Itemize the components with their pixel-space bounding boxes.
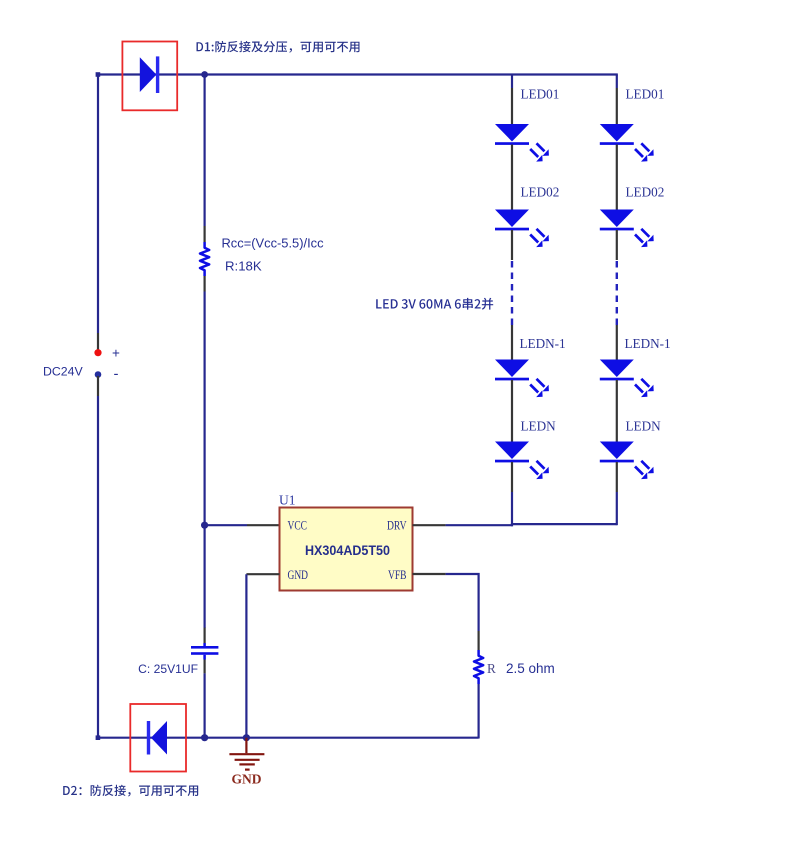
LED LEDN col2 xyxy=(600,442,654,480)
lead: gray above R xyxy=(478,631,480,650)
lead: col1 into LED01 xyxy=(511,88,513,125)
lead: col1 into LEDN-1 xyxy=(511,325,513,360)
lead: col2 below LED02 xyxy=(616,230,618,260)
lead: VFB pin stub xyxy=(413,573,446,575)
wire: LED bottom rail col1 to col2 xyxy=(511,523,617,525)
lead: gray below Rcc xyxy=(204,276,206,292)
svg-text:LEDN-1: LEDN-1 xyxy=(625,336,671,351)
svg-text:HX304AD5T50: HX304AD5T50 xyxy=(305,543,390,558)
wire: R to bottom rail xyxy=(478,684,480,739)
svg-text:LEDN: LEDN xyxy=(521,419,557,434)
LED LEDN-1 col1 xyxy=(495,360,549,398)
lead: gray above + terminal xyxy=(97,333,99,350)
wire: col2 dashed continuation xyxy=(616,261,618,325)
svg-text:VFB: VFB xyxy=(388,568,407,582)
lead: gray above capacitor xyxy=(204,628,206,643)
label: D1 annotation xyxy=(197,41,360,53)
lead: gray below capacitor xyxy=(204,660,206,674)
wire: GND pin down to bottom rail xyxy=(245,574,247,738)
node: DC24V - terminal (blue dot) xyxy=(95,371,102,378)
wire: rail from VCC junction down to capacitor xyxy=(204,525,206,628)
highlight box around D2 xyxy=(130,704,186,772)
LED LED02 col2 xyxy=(600,210,654,248)
wire: bottom rail xyxy=(97,737,479,739)
label: LED 3V 60MA 6串2并 xyxy=(376,298,493,310)
svg-text:2.5 ohm: 2.5 ohm xyxy=(506,661,555,676)
wire: VFB to sense resistor R xyxy=(446,574,479,631)
corner marker top-left xyxy=(96,72,101,77)
junction node at top of Rcc rail xyxy=(201,71,208,78)
lead: col2 below LEDN xyxy=(616,462,618,492)
svg-text:-: - xyxy=(114,366,119,383)
lead: col2 into LEDN-1 xyxy=(616,325,618,360)
lead: col1 LEDN-1 to LEDN xyxy=(511,380,513,442)
diode D1 (anode left, cathode right) xyxy=(140,56,159,93)
lead: DRV pin stub xyxy=(413,524,446,526)
lead: col2 LED01-LED02 xyxy=(616,145,618,211)
wire: col1 top blue stub xyxy=(511,75,513,89)
wire: VCC branch navy part xyxy=(205,524,247,526)
highlight box around D1 xyxy=(122,42,177,111)
lead: GND pin stub xyxy=(246,573,279,575)
wire: left rail lower segment xyxy=(97,396,99,739)
lead: col2 LEDN-1 to LEDN xyxy=(616,380,618,442)
lead: gray above Rcc xyxy=(204,226,206,242)
svg-text:LED01: LED01 xyxy=(521,87,560,102)
svg-text:R: R xyxy=(487,661,496,676)
lead: VCC pin stub xyxy=(247,524,280,526)
svg-text:LED02: LED02 xyxy=(626,185,665,200)
LED LED01 col2 xyxy=(600,124,654,162)
svg-text:GND: GND xyxy=(232,772,262,787)
svg-text:Rcc=(Vcc-5.5)/Icc: Rcc=(Vcc-5.5)/Icc xyxy=(222,236,325,251)
capacitor C plates and stubs xyxy=(191,643,218,660)
svg-text:DC24V: DC24V xyxy=(43,365,83,379)
svg-text:LED01: LED01 xyxy=(626,87,665,102)
lead: col1 below LED02 xyxy=(511,230,513,260)
svg-text:LED02: LED02 xyxy=(521,185,560,200)
LED LEDN col1 xyxy=(495,442,549,480)
wire: top rail from left rail to LED column 2 xyxy=(97,73,618,75)
wire: col2 to bottom LED rail xyxy=(616,492,618,525)
node: DC24V + terminal (red dot) xyxy=(94,349,101,356)
wire: capacitor to bottom rail xyxy=(204,673,206,738)
wire: col2 top blue stub xyxy=(616,75,618,89)
svg-text:DRV: DRV xyxy=(387,519,407,533)
LED LEDN-1 col2 xyxy=(600,360,654,398)
wire: left rail upper segment xyxy=(97,75,99,334)
wire: Rcc rail from top rail down to resistor xyxy=(204,75,206,227)
IC U1 body xyxy=(280,508,413,591)
wire: col1 to bottom LED rail xyxy=(511,492,513,526)
svg-text:+: + xyxy=(112,346,120,361)
resistor Rcc zigzag xyxy=(200,242,209,276)
ground symbol xyxy=(229,738,264,770)
svg-text:LEDN-1: LEDN-1 xyxy=(520,336,566,351)
LED LED02 col1 xyxy=(495,210,549,248)
corner marker bottom-left xyxy=(96,735,101,740)
resistor R zigzag xyxy=(474,650,483,684)
wire: col1 dashed continuation xyxy=(511,261,513,325)
junction node: ground at bottom rail xyxy=(243,734,250,741)
lead: gray below - terminal xyxy=(97,376,99,396)
svg-text:R:18K: R:18K xyxy=(225,259,262,274)
svg-text:GND: GND xyxy=(288,568,309,582)
svg-text:C: 25V1UF: C: 25V1UF xyxy=(138,662,198,676)
lead: col2 into LED01 xyxy=(616,88,618,125)
wire: Rcc rail down to VCC junction xyxy=(204,292,206,526)
label: D2 annotation xyxy=(63,785,198,797)
lead: col1 below LEDN xyxy=(511,462,513,492)
LED LED01 col1 xyxy=(495,124,549,162)
svg-text:LEDN: LEDN xyxy=(626,419,662,434)
junction node: capacitor at bottom rail xyxy=(201,734,208,741)
lead: col1 LED01-LED02 xyxy=(511,145,513,211)
wire: DRV to LED column 1 xyxy=(446,524,513,526)
svg-text:U1: U1 xyxy=(279,493,296,508)
diode D2 (cathode left, anode right) xyxy=(147,721,167,755)
junction node at VCC branch xyxy=(201,522,208,529)
svg-text:VCC: VCC xyxy=(288,519,308,533)
